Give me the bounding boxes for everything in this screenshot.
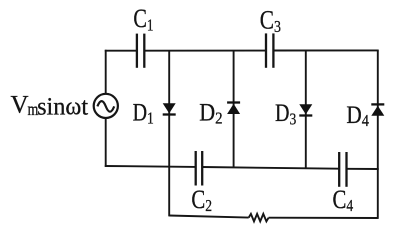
wire top rail middle segment (C1 to C3, node A) bbox=[144, 50, 266, 52]
wire source column top (source top to top rail) bbox=[105, 50, 107, 94]
wire D2 column (top rail to middle rail) bbox=[233, 51, 235, 168]
capacitor C3 plates bbox=[266, 33, 273, 67]
wire D4 column (top rail through D4 down to bottom rail) bbox=[377, 50, 379, 219]
capacitor C2 plates bbox=[196, 151, 203, 186]
capacitor C1 plates bbox=[137, 34, 144, 68]
wire D3 column (top rail to middle rail) bbox=[305, 51, 307, 169]
wire D1 column (top rail through D1 down to bottom rail) bbox=[168, 51, 170, 217]
diode D3 (pointing down, cathode bar below) bbox=[299, 104, 312, 115]
diode D2 (pointing up, cathode bar above) bbox=[227, 103, 240, 115]
wire top rail left segment (source to C1) bbox=[105, 50, 137, 52]
resistor R (load) zigzag bbox=[249, 214, 269, 222]
wire bottom rail right segment (resistor to D4 column) bbox=[269, 217, 378, 219]
wire top rail right segment (C3 to D4 corner, node C) bbox=[273, 49, 378, 51]
wire middle rail center segment (node B: C2 to C4) bbox=[202, 167, 339, 169]
wire source column bottom (source bottom to middle rail) bbox=[105, 118, 107, 167]
wire middle rail left segment (node 0: source to C2) bbox=[105, 165, 196, 168]
wire bottom rail left segment (D1 column to resistor) bbox=[169, 216, 249, 218]
svg-text:sinωt: sinωt bbox=[37, 93, 88, 120]
ac source V_m sin wt (circle with sine) bbox=[94, 94, 118, 118]
svg-text:V: V bbox=[11, 92, 29, 119]
wire middle rail right segment (node D: C4 to D4 column) bbox=[347, 168, 379, 170]
capacitor C4 plates bbox=[339, 152, 346, 187]
diode D4 (pointing up, cathode bar above) bbox=[371, 104, 384, 115]
diode D1 (pointing down, cathode bar below) bbox=[163, 103, 176, 114]
